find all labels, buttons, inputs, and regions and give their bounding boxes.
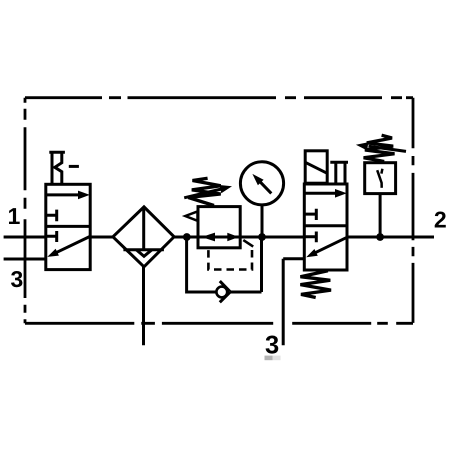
check valve in bypass [216,287,227,298]
valve V1 top box blocked port [46,210,57,222]
node junction dot C [376,233,384,241]
node junction dot B [258,233,266,241]
watermark smudge [265,356,273,361]
wire pressure switch stem [379,194,382,237]
port 2 label [435,211,446,227]
valve V1 top box flow arrow [47,193,79,196]
port 3 label bottom [266,335,279,353]
enclosure frame bottom (dash-dot) [25,322,413,325]
regulator R relief vent triangle [185,211,197,220]
wire regulator bypass left leg [187,237,217,292]
pressure switch S1 contact symbol [377,169,382,188]
wire regulator bypass right leg [230,237,262,292]
regulator R pilot line (dashed) [243,240,253,247]
regulator R adjustment spring [188,178,220,205]
valve V2 pilot plunger [330,162,348,184]
wire filter drain line [142,267,145,346]
enclosure frame left (dash-dot) [24,98,27,324]
valve V2 top box blocked port [304,209,316,220]
pressure switch S1 adjustment arrow [369,146,407,151]
filter F with water separator [113,207,174,267]
valve V2 bottom box blocked port [304,232,316,243]
valve V2 body [304,184,347,270]
valve V1 bottom box exhaust path arrow [56,237,90,253]
valve V2 position divider [304,224,347,227]
port 3 label left [11,271,22,287]
valve V1 manual detent actuator [49,152,65,184]
wire filter to regulator and through to valve V2 [174,236,304,239]
valve V2 bottom box exhaust path arrow [315,237,347,253]
enclosure frame right (dash-dot) [412,98,415,324]
wire port 1 line [4,236,46,239]
wire gauge stem [261,205,264,237]
node junction dot A [183,233,191,241]
pressure switch S1 spring [364,135,395,161]
wire valve V1 to filter [90,236,113,239]
valve V1 body [46,184,90,269]
wire valve V2 exhaust to port 3 [283,259,304,346]
valve V1 position divider [46,225,90,228]
valve V2 solenoid coil [305,151,327,183]
wire valve V2 to port 2 [347,236,434,239]
regulator R adjustment arrow [184,189,221,198]
port 1 label [9,208,20,224]
valve V2 top box flow arrow [306,192,337,195]
pressure switch S1 body [365,163,396,194]
valve V1 bottom box blocked port [46,231,57,242]
valve V2 return spring [300,271,331,298]
wire port 3 line [4,258,46,261]
regulator R body [198,207,240,248]
pressure gauge G [240,162,283,205]
enclosure frame top (dash-dot) [25,96,413,99]
regulator R flow arrowheads [202,233,216,242]
